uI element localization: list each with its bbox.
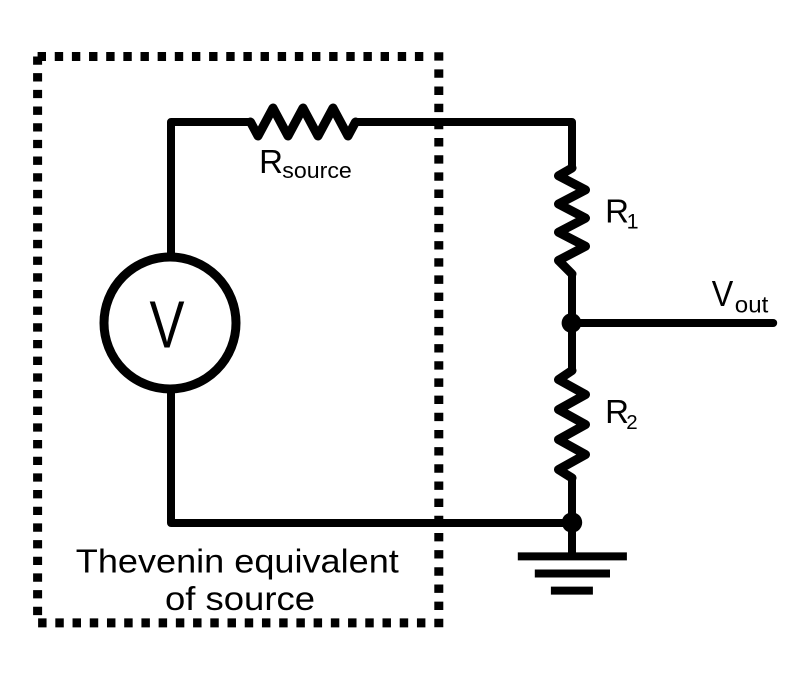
voltage source V (circle) xyxy=(104,257,236,389)
resistor R1 (zigzag) xyxy=(559,168,586,274)
label R1 xyxy=(605,192,638,233)
label R2 xyxy=(605,393,638,434)
wire: top-right horizontal + down to R1 xyxy=(356,122,573,168)
ground xyxy=(518,556,627,590)
svg-text:V: V xyxy=(150,288,185,363)
label Vout xyxy=(712,273,769,318)
svg-text:2: 2 xyxy=(626,411,637,434)
dotted box: Thevenin equivalent of source xyxy=(38,52,439,627)
node Vout (junction dot) xyxy=(562,313,582,333)
resistor Rsource (zigzag) xyxy=(251,108,356,136)
wire: bottom loop xyxy=(171,392,572,523)
wire: left vertical + top-left horizontal xyxy=(171,122,251,255)
wire: R1 to R2 through Vout node xyxy=(568,274,576,371)
svg-text:R: R xyxy=(259,143,283,180)
svg-text:V: V xyxy=(712,273,734,314)
svg-text:source: source xyxy=(282,158,352,183)
svg-text:of source: of source xyxy=(165,580,315,617)
wire: R2 down to ground xyxy=(568,478,576,556)
label Rsource xyxy=(259,143,352,183)
svg-text:Thevenin equivalent: Thevenin equivalent xyxy=(76,543,399,580)
svg-text:1: 1 xyxy=(627,210,639,234)
node: bottom junction dot xyxy=(562,512,582,532)
resistor R2 (zigzag) xyxy=(559,371,586,479)
svg-text:out: out xyxy=(735,292,769,318)
label: Thevenin equivalent of source xyxy=(76,543,399,617)
svg-text:R: R xyxy=(605,192,629,229)
wire: Vout horizontal xyxy=(572,319,773,327)
